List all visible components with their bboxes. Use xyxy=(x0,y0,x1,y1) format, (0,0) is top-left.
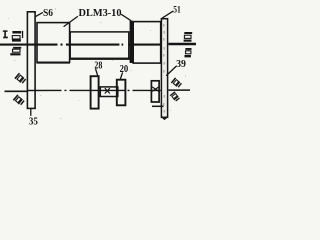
svg-text:DLM3-10: DLM3-10 xyxy=(79,7,122,19)
svg-text:51: 51 xyxy=(173,6,181,16)
svg-text:28: 28 xyxy=(94,60,102,71)
svg-text:S6: S6 xyxy=(43,8,53,19)
svg-text:35: 35 xyxy=(29,116,38,125)
svg-text:20: 20 xyxy=(120,64,129,75)
svg-text:39: 39 xyxy=(176,59,186,70)
